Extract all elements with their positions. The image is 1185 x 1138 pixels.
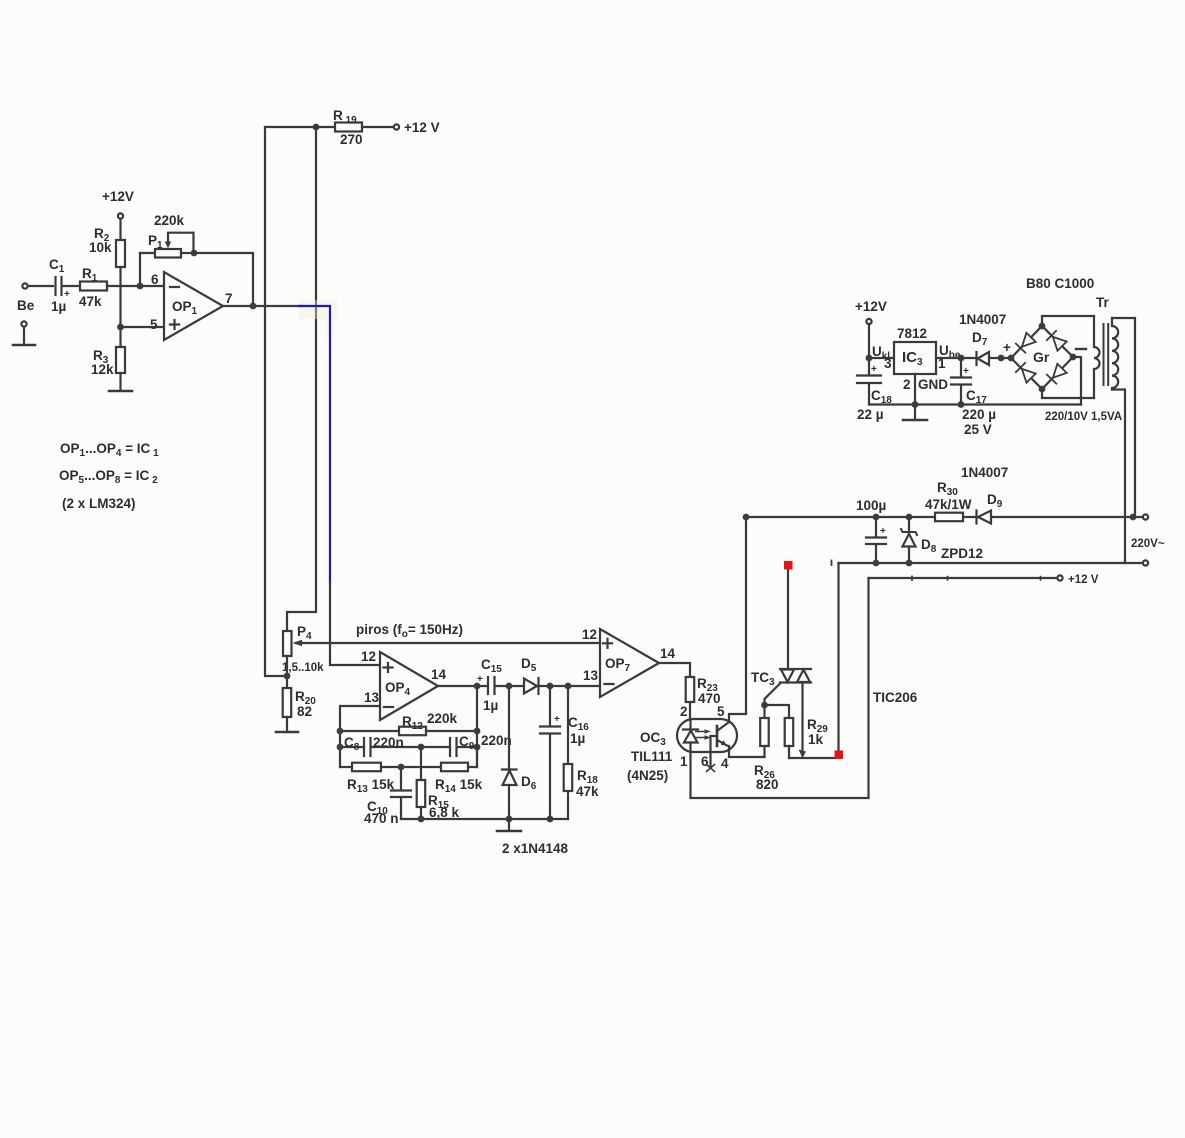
svg-text:3: 3 (884, 356, 892, 371)
ground (R3) (109, 390, 132, 393)
svg-text:Gr: Gr (1033, 349, 1050, 365)
resistor R13 (340, 763, 441, 795)
wire +12V feed (right) (869, 577, 1058, 579)
node 220V top terminal (1135, 514, 1148, 519)
svg-text:220n: 220n (481, 733, 512, 748)
svg-text:220k: 220k (154, 213, 185, 228)
wire triac MT2 riser (787, 569, 789, 669)
svg-text:+: + (880, 526, 886, 537)
svg-text:25 V: 25 V (964, 422, 992, 437)
diode D6 (502, 686, 537, 819)
wire OP4 pin13 feedback left column (340, 706, 380, 767)
svg-text:220k: 220k (427, 711, 458, 726)
node R15 bottom dot (418, 816, 425, 823)
node output junction dot (250, 303, 257, 310)
svg-text:Tr: Tr (1096, 295, 1110, 310)
node gate junction dot (761, 702, 768, 709)
wire vertical V1 R19 to P4 bottom (265, 127, 287, 676)
node R19 junction dot (313, 124, 320, 131)
wire red node riser to 220V rail (837, 563, 839, 750)
svg-text:1k: 1k (808, 732, 824, 747)
resistor R19 (265, 108, 393, 147)
node bridge + dot (998, 355, 1005, 362)
capacitor 100u (856, 498, 886, 563)
svg-text:TIL111: TIL111 (631, 749, 673, 764)
svg-text:4: 4 (721, 756, 729, 771)
wire OP4 output row (438, 685, 488, 687)
node red square marker 1 (835, 751, 844, 760)
regulator IC3 7812 (872, 326, 961, 392)
svg-text:+: + (477, 674, 483, 685)
node C8/C9 middle dot (418, 744, 425, 751)
node D5 right dot (547, 683, 554, 690)
svg-text:220/10V 1,5VA: 220/10V 1,5VA (1045, 411, 1122, 423)
zener diode D8 ZPD12 (901, 517, 983, 563)
wire Ukl to IC3 (869, 357, 894, 359)
svg-text:47k: 47k (576, 784, 599, 799)
node 100u bottom dot (873, 560, 880, 567)
svg-text:47k: 47k (79, 294, 102, 309)
node D5 left dot (506, 683, 513, 690)
svg-text:+: + (1003, 340, 1011, 355)
node R13/R14 middle dot (398, 764, 405, 771)
svg-text:220V~: 220V~ (1131, 538, 1165, 550)
ground (oscillator rail) (497, 819, 521, 831)
op-amp OP7 (582, 627, 676, 697)
wire P4 wiper to OP7 pin 12 (302, 642, 600, 644)
node R18 top dot (565, 683, 572, 690)
wire bridge top to secondary (1042, 316, 1094, 326)
wire feedback right column (476, 686, 478, 767)
wire 220V bottom line (839, 562, 1144, 564)
op-amp OP4 (361, 649, 447, 720)
bridge rectifier Gr (1003, 323, 1086, 393)
svg-text:14: 14 (431, 667, 447, 682)
svg-text:(4N25): (4N25) (627, 768, 668, 783)
wire primary top to 220V (1112, 318, 1135, 517)
ground (input) (13, 321, 35, 345)
svg-text:5: 5 (150, 317, 158, 332)
+12V terminal (R19) (394, 120, 440, 135)
svg-text:100µ: 100µ (856, 498, 886, 513)
svg-text:5: 5 (717, 704, 725, 719)
capacitor C1 (49, 257, 80, 314)
svg-text:Be: Be (17, 298, 35, 313)
capacitor C17 (951, 358, 996, 437)
svg-text:82: 82 (297, 704, 312, 719)
node 100u top dot (873, 514, 880, 521)
svg-text:6: 6 (701, 754, 709, 769)
svg-text:7812: 7812 (897, 326, 927, 341)
svg-text:13: 13 (583, 668, 599, 683)
potentiometer P1 (140, 213, 194, 286)
svg-text:+12V: +12V (855, 299, 887, 314)
wire IC3 output (936, 357, 976, 359)
node red square marker 2 (784, 561, 793, 570)
ground (IC3) (903, 419, 927, 422)
wire OC3 pin1 bottom return (691, 578, 869, 798)
wire OC3 pin6 with x (707, 736, 718, 772)
svg-text:22 µ: 22 µ (857, 407, 884, 422)
resistor R12 (340, 711, 477, 735)
+12V terminal (right) (1057, 574, 1098, 586)
resistor R15 (417, 747, 460, 820)
svg-text:TIC206: TIC206 (873, 690, 918, 705)
diode D5 (521, 656, 600, 694)
capacitor C9 (421, 733, 512, 756)
wire IC3 GND pin (914, 374, 916, 419)
svg-text:GND: GND (918, 377, 948, 392)
resistor R3 (91, 347, 125, 390)
svg-text:2: 2 (680, 704, 688, 719)
wire DC rail (100u/D8/R30/D9) (746, 516, 935, 518)
potentiometer P4 (282, 624, 324, 674)
note OP assignments text (59, 441, 159, 511)
wire black continuation to OP4 pin 12 (330, 582, 380, 665)
node rail right dot (1130, 514, 1137, 521)
wire P1 feedback to output (194, 253, 253, 306)
svg-text:12: 12 (361, 649, 376, 664)
wire OC3 pin4 (729, 746, 765, 757)
svg-text:6: 6 (151, 272, 159, 287)
svg-text:+12 V: +12 V (404, 120, 440, 135)
svg-text:270: 270 (340, 132, 363, 147)
svg-text:6,8 k: 6,8 k (429, 805, 460, 820)
wire OP1 output (223, 305, 305, 307)
resistor R14 (435, 747, 483, 795)
svg-text:1: 1 (680, 754, 688, 769)
resistor R23 (686, 676, 721, 719)
resistor R2 (89, 226, 125, 347)
svg-text:820: 820 (756, 777, 779, 792)
svg-text:+: + (554, 714, 560, 725)
+12V terminal (regulator) (855, 299, 887, 375)
resistor R20 (283, 656, 317, 731)
node Be input terminal (17, 283, 53, 313)
wire pin5 to op-amp (121, 326, 165, 328)
triac TC3 (751, 669, 811, 688)
svg-text:1µ: 1µ (51, 299, 66, 314)
svg-text:1N4007: 1N4007 (959, 312, 1006, 327)
svg-text:(2 x LM324): (2 x LM324) (62, 496, 136, 511)
node P4 bottom junction dot (284, 673, 291, 680)
wire OP7 output (659, 663, 690, 677)
node pin6 junction dot (137, 283, 144, 290)
svg-text:12k: 12k (91, 362, 114, 377)
svg-text:12: 12 (582, 627, 597, 642)
resistor R1 (79, 266, 164, 309)
resistor R26 (754, 705, 779, 792)
capacitor C8 (340, 735, 421, 756)
svg-text:10k: 10k (89, 240, 112, 255)
svg-text:13: 13 (364, 690, 380, 705)
node GND rail dot (912, 401, 919, 408)
wire supply ground rail (869, 403, 1081, 405)
node C16 bottom dot (547, 816, 554, 823)
wire bottom rail oscillator (401, 818, 568, 820)
svg-text:1N4007: 1N4007 (961, 465, 1008, 480)
capacitor C15 (477, 657, 524, 713)
svg-text:1µ: 1µ (570, 731, 585, 746)
svg-text:1,5..10k: 1,5..10k (282, 662, 324, 674)
svg-text:14: 14 (660, 646, 676, 661)
wire R29 to red node (789, 757, 835, 759)
ground (R20) (276, 731, 298, 734)
wire yellow highlight (299, 300, 337, 319)
svg-text:470 n: 470 n (364, 811, 399, 826)
svg-text:220 µ: 220 µ (962, 407, 996, 422)
transformer Tr (1045, 295, 1122, 423)
node R12 left dot (337, 728, 344, 735)
resistor R18 (564, 686, 599, 819)
wire bridge minus to ground rail (1073, 357, 1081, 405)
svg-text:220n: 220n (373, 735, 404, 750)
node D8 bottom dot (906, 560, 913, 567)
svg-text:2: 2 (903, 377, 911, 392)
svg-text:2 x1N4148: 2 x1N4148 (502, 841, 569, 856)
diode D9 (977, 492, 1003, 524)
node C8 left dot (337, 744, 344, 751)
node R12 right dot (474, 728, 481, 735)
wire vertical V2 R19 to P4 top (287, 127, 316, 631)
resistor R29 (785, 717, 829, 758)
svg-text:1µ: 1µ (483, 698, 498, 713)
node C9 right dot (474, 744, 481, 751)
svg-text:+12V: +12V (102, 189, 134, 204)
svg-text:+: + (871, 364, 877, 375)
node OP4 out junction dot (474, 683, 481, 690)
node D8 top dot (906, 514, 913, 521)
wire triac gate (765, 683, 781, 705)
wire bridge bottom to secondary (1042, 389, 1094, 398)
+12V terminal (top left) (102, 189, 134, 240)
wire blue OP1 output to OP4 (299, 306, 330, 582)
svg-text:+: + (963, 366, 969, 377)
wire OC3 pin5 riser (729, 517, 746, 722)
node 220V bottom terminal (1143, 560, 1148, 565)
svg-text:47k/1W: 47k/1W (925, 497, 972, 512)
node rail pin5 dot (743, 514, 750, 521)
capacitor C16 (540, 686, 589, 819)
svg-text:7: 7 (225, 291, 233, 306)
optocoupler OC3 (627, 704, 737, 783)
node Ube junction dot (958, 355, 965, 362)
resistor R30 (925, 480, 972, 521)
capacitor C10 (364, 767, 411, 826)
wire primary bottom to 220V (1112, 390, 1125, 564)
node pin5 junction dot (117, 324, 124, 331)
svg-text:+12 V: +12 V (1068, 574, 1099, 586)
node D6 bottom dot (506, 816, 513, 823)
node P1 right junction dot (191, 250, 198, 257)
svg-text:ZPD12: ZPD12 (941, 546, 983, 561)
diode D7 (972, 330, 1011, 365)
wire gate to R29 (765, 705, 790, 718)
node C17 bottom dot (958, 401, 965, 408)
wire triac MT1 down (799, 683, 807, 759)
capacitor C18 (857, 364, 892, 422)
node Ukl junction dot (866, 355, 873, 362)
svg-text:B80 C1000: B80 C1000 (1026, 276, 1094, 291)
op-amp OP1 (150, 272, 233, 340)
